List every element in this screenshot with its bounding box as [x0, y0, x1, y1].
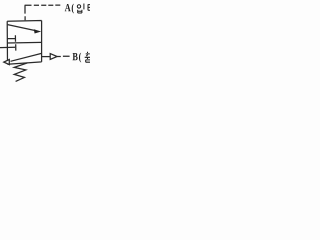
- blocked port T (top box): [8, 35, 16, 42]
- hangul 력 partial (clipped): [88, 4, 90, 10]
- hangul 입 : bieup: [78, 10, 82, 13]
- supply line into bottom box: [0, 46, 15, 48]
- blocked port T bar (bottom box): [15, 44, 17, 50]
- return spring: [14, 63, 27, 82]
- hangul 입 : i vertical: [83, 4, 85, 10]
- B line after triangle: [57, 55, 70, 57]
- valve body outer box: [7, 21, 41, 65]
- port label B(: [73, 53, 82, 63]
- flow direction triangle on B line: [50, 54, 57, 60]
- flow arrowhead open triangle (bottom box): [4, 60, 10, 65]
- pilot line horizontal (dashed): [25, 4, 61, 6]
- flow path line (top box): [8, 25, 36, 31]
- port label A(: [65, 4, 74, 14]
- valve position divider: [7, 41, 41, 44]
- hangul 출 partial : u bar: [85, 57, 90, 59]
- flow path line (bottom box): [11, 53, 42, 61]
- hangul 입 : ieung circle: [77, 5, 80, 8]
- pilot line vertical (dashed): [24, 5, 26, 20]
- hangul 출 partial (clipped) : chieut top: [86, 52, 90, 57]
- hangul 출 partial : rieul top: [86, 60, 90, 62]
- output line to port B: [42, 56, 50, 58]
- flow arrowhead (top box): [34, 29, 41, 33]
